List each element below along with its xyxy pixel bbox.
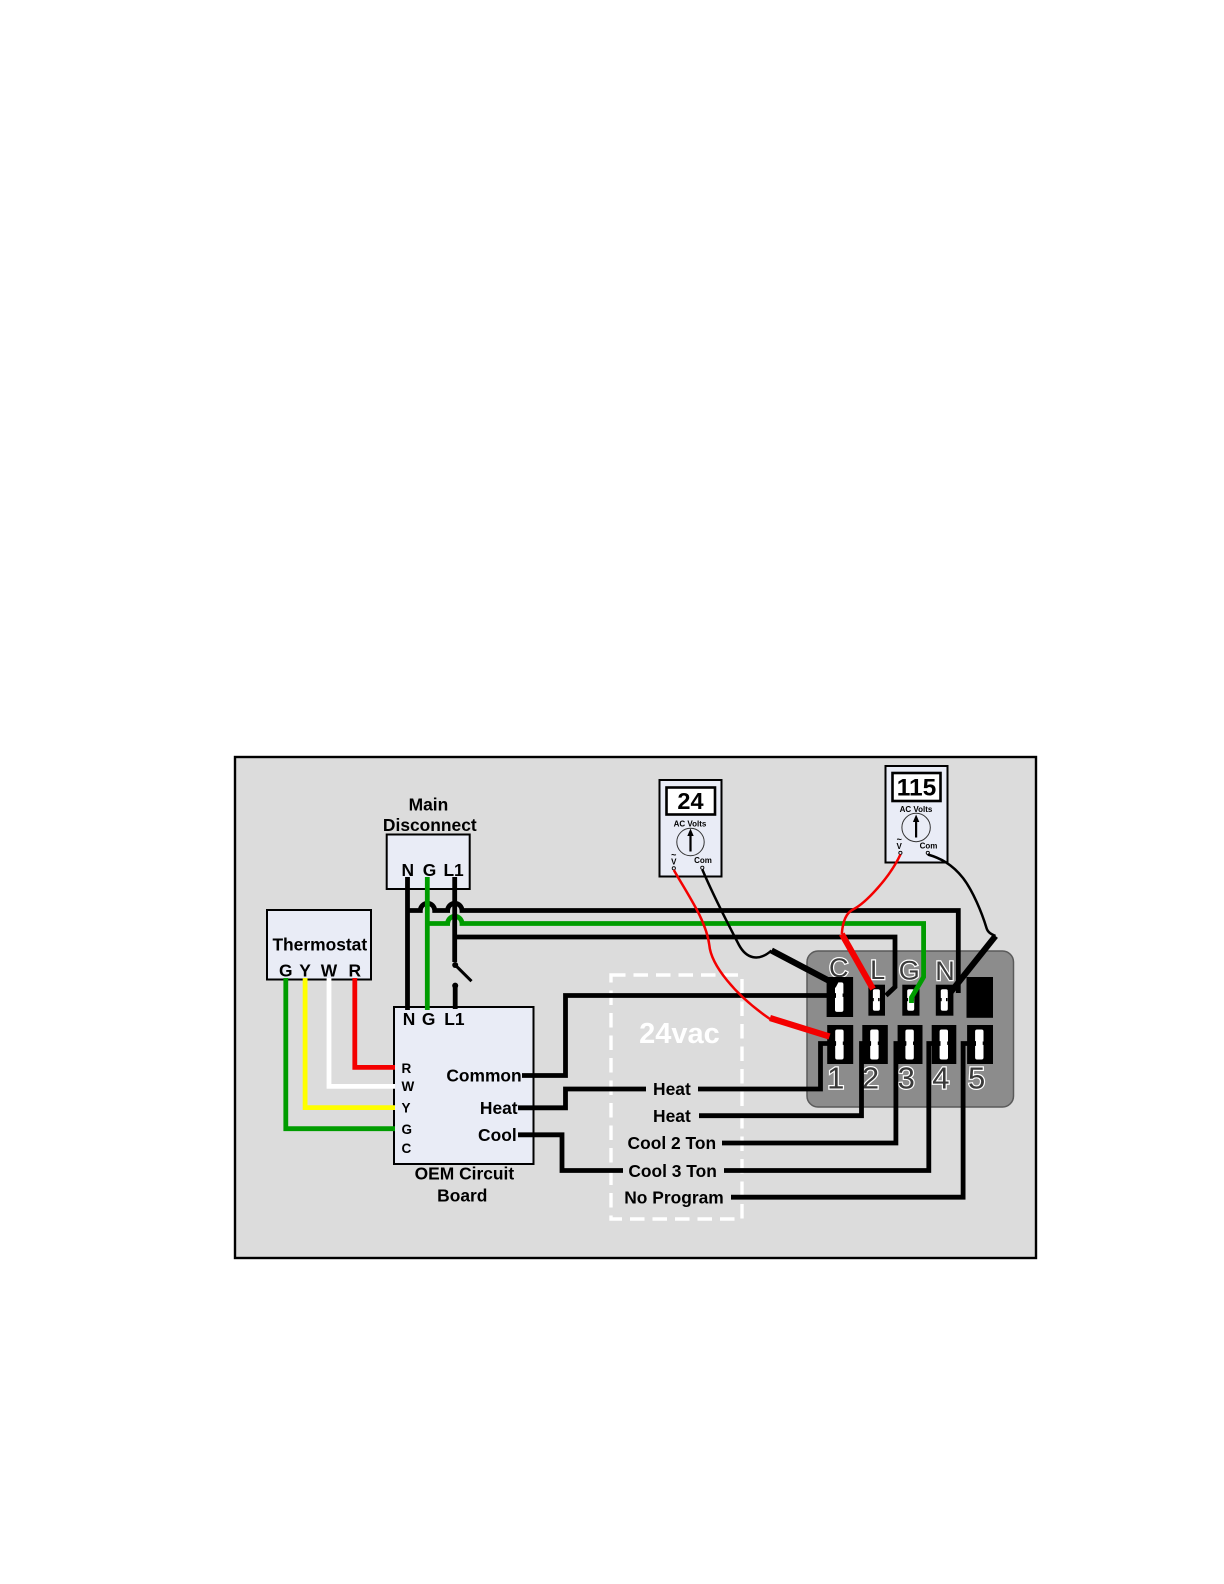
blank terminal block xyxy=(967,977,994,1018)
svg-text:Y: Y xyxy=(299,961,311,981)
svg-text:N: N xyxy=(935,956,955,986)
svg-text:3: 3 xyxy=(898,1061,915,1096)
wire Common to C terminal xyxy=(522,996,836,1076)
svg-text:115: 115 xyxy=(897,775,937,802)
svg-text:Main: Main xyxy=(409,795,449,815)
terminal G xyxy=(902,985,919,1016)
thermostat box xyxy=(267,910,371,981)
svg-text:Cool 2 Ton: Cool 2 Ton xyxy=(628,1133,717,1153)
svg-text:~: ~ xyxy=(671,850,676,860)
svg-text:1: 1 xyxy=(827,1061,844,1096)
wire L1 branch to L terminal xyxy=(455,937,895,996)
wire No Program to terminal 5 xyxy=(731,1044,976,1198)
svg-text:G: G xyxy=(402,1122,413,1137)
meter 115 red probe tip into terminal L xyxy=(842,934,873,989)
svg-text:4: 4 xyxy=(932,1061,949,1096)
svg-text:W: W xyxy=(321,961,338,981)
svg-text:24vac: 24vac xyxy=(639,1018,720,1050)
svg-text:~: ~ xyxy=(897,835,902,845)
svg-text:Cool: Cool xyxy=(478,1125,517,1145)
thermostat wire R xyxy=(355,978,395,1067)
svg-text:C: C xyxy=(402,1141,412,1156)
diagram background panel xyxy=(235,757,1036,1258)
svg-text:AC Volts: AC Volts xyxy=(674,820,707,829)
svg-text:L1: L1 xyxy=(444,1009,465,1029)
svg-text:Board: Board xyxy=(437,1185,487,1205)
meter 115 xyxy=(886,766,948,863)
svg-text:Common: Common xyxy=(446,1066,521,1086)
svg-text:5: 5 xyxy=(968,1061,985,1096)
wire N horizontal with hops to N terminal xyxy=(408,903,959,993)
meter 24 black probe lead xyxy=(702,870,771,958)
svg-text:AC Volts: AC Volts xyxy=(900,805,933,814)
meter 24 red probe lead xyxy=(674,870,770,1019)
terminal N xyxy=(936,985,954,1016)
svg-text:R: R xyxy=(402,1061,412,1076)
meter 115 black probe lead xyxy=(928,855,996,937)
terminal L xyxy=(868,985,885,1016)
meter 24 red probe tip into terminal 1 xyxy=(770,1018,830,1037)
svg-text:OEM Circuit: OEM Circuit xyxy=(415,1164,515,1184)
svg-text:Disconnect: Disconnect xyxy=(383,815,477,835)
svg-text:R: R xyxy=(349,961,362,981)
24vac dashed region xyxy=(611,975,742,1219)
wire OEM Cool to Cool 3 Ton xyxy=(518,1135,623,1171)
svg-text:L: L xyxy=(870,955,885,985)
meter 115 black probe tip into terminal N xyxy=(950,936,996,993)
meter 24 xyxy=(660,780,722,877)
svg-text:Y: Y xyxy=(402,1101,411,1116)
svg-text:G: G xyxy=(899,956,920,986)
svg-text:Heat: Heat xyxy=(480,1098,518,1118)
terminal C xyxy=(827,977,854,1017)
main disconnect box xyxy=(383,795,477,890)
terminal 5 xyxy=(967,1025,993,1064)
meter 24 black probe tip into terminal C xyxy=(772,951,838,986)
thermostat wire G xyxy=(286,978,395,1129)
terminal 3 xyxy=(898,1025,923,1064)
wire Heat label to terminal 1 xyxy=(698,1044,836,1090)
svg-text:G: G xyxy=(279,961,293,981)
svg-text:Cool 3 Ton: Cool 3 Ton xyxy=(628,1161,717,1181)
terminal 1 xyxy=(827,1025,853,1064)
svg-text:No Program: No Program xyxy=(624,1187,724,1207)
wire G horizontal with hop to G terminal xyxy=(427,916,923,1003)
wire L1 to switch xyxy=(452,877,457,962)
svg-text:Heat: Heat xyxy=(653,1079,691,1099)
svg-text:Heat: Heat xyxy=(653,1106,691,1126)
svg-text:G: G xyxy=(422,1009,436,1029)
wire Cool 2 Ton to terminal 3 xyxy=(722,1044,906,1144)
wire OEM Heat to Heat label xyxy=(518,1089,646,1108)
svg-text:2: 2 xyxy=(862,1061,879,1096)
svg-text:N: N xyxy=(403,1009,416,1029)
thermostat wire W xyxy=(329,978,395,1086)
OEM circuit board box xyxy=(394,1007,534,1205)
wire Cool 3 Ton to terminal 4 xyxy=(724,1044,941,1171)
svg-text:W: W xyxy=(402,1079,415,1094)
wire N vertical to OEM xyxy=(405,877,410,1010)
thermostat wire Y xyxy=(305,978,395,1108)
terminal 4 xyxy=(932,1025,957,1064)
svg-text:24: 24 xyxy=(677,788,703,814)
meter 115 red probe lead xyxy=(842,855,901,935)
wire Heat 2 to terminal 2 xyxy=(699,1044,871,1116)
wire G vertical to OEM xyxy=(425,877,430,1010)
wire switch to OEM L1 xyxy=(453,986,458,1009)
svg-text:Thermostat: Thermostat xyxy=(272,935,367,955)
switch contact dots and blade xyxy=(452,962,458,968)
terminal block xyxy=(807,951,1014,1107)
terminal 2 xyxy=(862,1025,888,1064)
svg-text:Com: Com xyxy=(920,842,938,851)
svg-text:Com: Com xyxy=(694,856,712,865)
